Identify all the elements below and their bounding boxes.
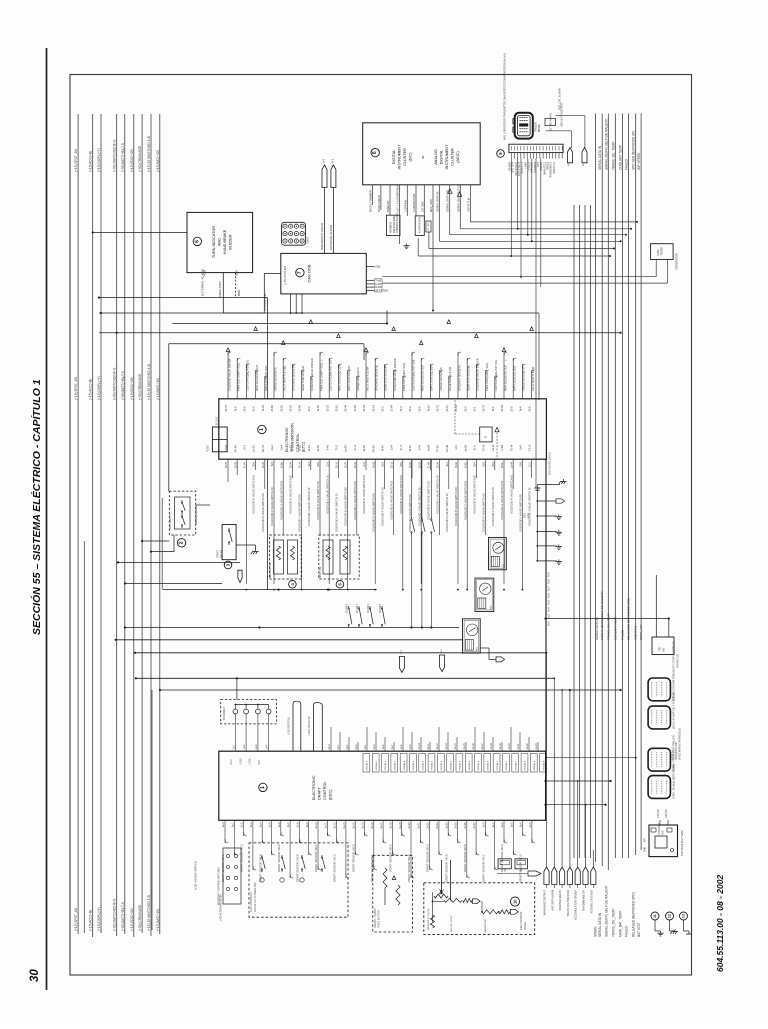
svg-text:NEUTRAL SW: NEUTRAL SW <box>269 562 272 578</box>
svg-text:W-1D: W-1D <box>299 445 302 452</box>
etc to edc right edge wire <box>545 459 547 751</box>
svg-text:SOLENOID L VALVE SWITCH DI: SOLENOID L VALVE SWITCH DI <box>325 475 329 514</box>
svg-text:DI-SW 2: DI-SW 2 <box>368 603 370 612</box>
svg-text:25-6: 25-6 <box>492 461 495 466</box>
svg-text:Ta-4: Ta-4 <box>548 607 551 612</box>
svg-text:ELECTRONIC: ELECTRONIC <box>285 427 289 452</box>
svg-text:23-64: 23-64 <box>299 404 302 411</box>
bus wire y333 <box>99 332 621 334</box>
bus wire y653 <box>135 652 547 654</box>
svg-text:SERIAL DATA IN/1: SERIAL DATA IN/1 <box>446 189 450 212</box>
svg-text:25-5: 25-5 <box>483 461 486 466</box>
svg-text:(+15) HI B-IN: (+15) HI B-IN <box>263 293 267 310</box>
bus wire y627 <box>125 627 459 629</box>
svg-text:DI-SW 0: DI-SW 0 <box>347 603 349 612</box>
svg-text:25-34: 25-34 <box>437 461 440 468</box>
ground reference G13 <box>680 912 688 920</box>
svg-text:25-75: 25-75 <box>345 461 348 468</box>
cluster bottom pins <box>372 185 374 205</box>
svg-text:4a-10: 4a-10 <box>418 743 421 750</box>
K9 output arrow <box>480 647 489 649</box>
svg-text:R15: R15 <box>523 513 527 518</box>
svg-text:(+15) BAT(+15): (+15) BAT(+15) <box>156 150 160 172</box>
svg-text:SOLENOID F VALVE SWITCH DI: SOLENOID F VALVE SWITCH DI <box>491 487 495 526</box>
svg-text:25-61: 25-61 <box>501 461 504 468</box>
svg-text:AL-5: AL-5 <box>474 444 477 450</box>
svg-text:SOLENOID B VALVE SWITCH DI: SOLENOID B VALVE SWITCH DI <box>454 487 458 526</box>
can ddb right pins <box>366 266 374 268</box>
wire drop x267 <box>266 298 268 399</box>
svg-text:AMP STAT: AMP STAT <box>634 625 638 640</box>
svg-text:ANT-SKP ALARM: ANT-SKP ALARM <box>550 890 554 911</box>
svg-text:SPEED SENSOR IN: SPEED SENSOR IN <box>522 367 526 391</box>
svg-text:Ta-14: Ta-14 <box>299 461 302 468</box>
edc control panel <box>424 883 535 935</box>
panel pot P2 <box>444 898 462 902</box>
svg-text:SOLENOID L VALVE SWITCH DI: SOLENOID L VALVE SWITCH DI <box>436 475 440 514</box>
svg-text:2a-17: 2a-17 <box>380 822 383 829</box>
svg-text:1a-M: 1a-M <box>492 445 495 451</box>
bus wire y344 <box>169 343 364 345</box>
panel pot feeds <box>441 860 443 893</box>
svg-text:13: 13 <box>682 914 686 918</box>
svg-text:T-1-B: T-1-B <box>529 445 532 451</box>
svg-text:NR: NR <box>661 648 665 652</box>
svg-text:(+30) CREAKAGE: (+30) CREAKAGE <box>138 905 142 931</box>
svg-text:(EDC): (EDC) <box>329 789 333 800</box>
wire branch x84 <box>83 541 85 933</box>
svg-text:(+15) EDC(+15): (+15) EDC(+15) <box>130 149 134 172</box>
svg-text:SOLENOID G VALVE SWITCH DI: SOLENOID G VALVE SWITCH DI <box>500 481 504 520</box>
svg-text:GEAR POS SENSOR: GEAR POS SENSOR <box>384 366 388 391</box>
svg-text:EDC CONTROLS: EDC CONTROLS <box>250 892 253 912</box>
svg-text:25-34: 25-34 <box>363 404 366 411</box>
svg-text:SIGNAL 5: SIGNAL 5 <box>431 760 434 771</box>
svg-text:SLIP SET POINT: SLIP SET POINT <box>451 915 453 932</box>
bus wire y640 <box>116 639 463 641</box>
svg-text:AND LUBRICATION TRANSMITTER DI: AND LUBRICATION TRANSMITTER DIAGNOSTICS … <box>504 53 507 140</box>
svg-text:BAT: BAT <box>644 837 647 842</box>
svg-text:AL-4: AL-4 <box>400 444 403 450</box>
svg-text:25-14: 25-14 <box>372 404 375 411</box>
relay module K9 <box>463 619 481 653</box>
svg-text:2a-25: 2a-25 <box>455 822 458 829</box>
wires start relay <box>125 583 222 585</box>
svg-text:(+30) CREAKAGE: (+30) CREAKAGE <box>138 146 142 172</box>
bus wire y323 <box>172 323 387 325</box>
svg-text:CONN/DIS SIGNAL: CONN/DIS SIGNAL <box>396 212 399 233</box>
svg-text:4a-20: 4a-20 <box>508 743 511 750</box>
svg-text:HI-LO SHUTTLE SW: HI-LO SHUTTLE SW <box>448 366 452 391</box>
svg-text:2a-14: 2a-14 <box>352 822 355 829</box>
pentagon not used 1 <box>568 148 573 163</box>
svg-text:DI-SW 1: DI-SW 1 <box>357 603 359 612</box>
connector X12 pin grid <box>282 222 306 245</box>
svg-text:25-6: 25-6 <box>317 461 320 466</box>
svg-text:2a-2: 2a-2 <box>501 822 504 827</box>
svg-text:TRANS_OIL_TEMP: TRANS_OIL_TEMP <box>611 909 615 937</box>
svg-text:EXTERNAL ALARM: EXTERNAL ALARM <box>201 269 205 296</box>
svg-text:FAILED: FAILED <box>624 158 628 170</box>
svg-text:25-34: 25-34 <box>455 404 458 411</box>
connector DT9 housing icon <box>515 113 533 139</box>
svg-text:HI-LO SHUTTLE SW: HI-LO SHUTTLE SW <box>531 366 535 391</box>
svg-text:LOAD OVERFLW: LOAD OVERFLW <box>308 716 311 736</box>
svg-text:25-8: 25-8 <box>520 461 523 466</box>
svg-text:DRAFT SENSOR SIG 6: DRAFT SENSOR SIG 6 <box>444 854 448 882</box>
svg-text:4a-4: 4a-4 <box>364 744 367 749</box>
svg-text:DRAFT SENSOR SIG 1: DRAFT SENSOR SIG 1 <box>314 844 318 872</box>
svg-text:RELAY: RELAY <box>220 550 223 558</box>
svg-text:IMP SPEED: IMP SPEED <box>637 152 641 170</box>
svg-text:1a-4S: 1a-4S <box>363 445 366 452</box>
svg-text:TRANS OIL PRESS DI: TRANS OIL PRESS DI <box>566 890 570 917</box>
connector block P2 <box>648 706 670 729</box>
svg-text:(+15) SPST_AN: (+15) SPST_AN <box>74 907 78 931</box>
svg-text:TP-2: TP-2 <box>336 444 339 450</box>
svg-text:2a-18: 2a-18 <box>390 822 393 829</box>
svg-text:SEAT SWITCH: SEAT SWITCH <box>169 514 172 530</box>
svg-text:SIGNAL 3: SIGNAL 3 <box>394 760 397 771</box>
svg-text:SECCIÓN 55 – SISTEMA ELÉCTRICO: SECCIÓN 55 – SISTEMA ELÉCTRICO - CAPÍTUL… <box>30 379 43 635</box>
svg-text:ANALOG: ANALOG <box>434 149 438 165</box>
svg-text:2a-0: 2a-0 <box>483 822 486 827</box>
svg-text:CN2: CN2 <box>375 265 381 269</box>
svg-text:DRAFT SENSOR SIG 3: DRAFT SENSOR SIG 3 <box>333 854 337 882</box>
svg-text:2a-13: 2a-13 <box>343 822 346 829</box>
svg-text:(+30) BATT(+B)LT-S: (+30) BATT(+B)LT-S <box>121 371 125 400</box>
svg-text:SPD SEN (BUFFERED SP): SPD SEN (BUFFERED SP) <box>632 131 636 170</box>
svg-text:1a-2: 1a-2 <box>243 744 246 749</box>
svg-text:SIGNAL 3: SIGNAL 3 <box>366 760 369 771</box>
svg-text:4a-0: 4a-0 <box>328 744 331 749</box>
relay module K8 <box>475 578 494 611</box>
svg-text:LO-P: LO-P <box>230 759 233 765</box>
svg-text:12: 12 <box>668 914 672 918</box>
position sensor module <box>373 855 413 932</box>
svg-text:INSTRUMENT: INSTRUMENT <box>445 144 449 170</box>
svg-text:2a-20: 2a-20 <box>408 822 411 829</box>
svg-text:L-EXU: L-EXU <box>239 758 242 765</box>
svg-text:25-62: 25-62 <box>271 404 274 411</box>
svg-text:(+15) EDC(+15): (+15) EDC(+15) <box>130 377 134 400</box>
svg-text:HAND BRAKE: HAND BRAKE <box>223 229 227 254</box>
cluster to etc verticals <box>535 159 537 489</box>
block electronic draft control U1b <box>219 751 546 820</box>
svg-text:EDC CONTROL: EDC CONTROL <box>519 911 523 930</box>
svg-text:Ta-3: Ta-3 <box>308 461 311 466</box>
svg-text:SOLENOID H VALVE SWITCH DI: SOLENOID H VALVE SWITCH DI <box>399 475 403 514</box>
svg-text:23-61: 23-61 <box>464 461 467 468</box>
svg-text:(+30) SWITCHED B+S: (+30) SWITCHED B+S <box>113 140 117 172</box>
neutral switch module M4 <box>270 535 302 579</box>
svg-text:(+15) SPST_AN: (+15) SPST_AN <box>74 376 78 400</box>
pentagons below relays <box>399 656 404 672</box>
svg-text:2a-5: 2a-5 <box>529 822 532 827</box>
svg-text:SIGNAL 3: SIGNAL 3 <box>384 760 387 771</box>
svg-text:Ta-7: Ta-7 <box>548 586 551 591</box>
svg-text:25-75: 25-75 <box>225 404 228 411</box>
svg-text:SOLENOID VALVE DRIVER: SOLENOID VALVE DRIVER <box>227 358 231 391</box>
start relay pentagon <box>238 570 242 582</box>
svg-text:AND: AND <box>218 238 222 246</box>
svg-text:CLUTCH PEDAL POT SIG: CLUTCH PEDAL POT SIG <box>494 360 498 391</box>
dashed module above edc <box>221 700 277 724</box>
svg-text:4a-2: 4a-2 <box>346 744 349 749</box>
svg-text:JP-1: JP-1 <box>244 444 247 450</box>
svg-text:TRANS_OIL_TEMP: TRANS_OIL_TEMP <box>606 613 610 640</box>
svg-text:HI-LO SHUTTLE SW: HI-LO SHUTTLE SW <box>283 366 287 391</box>
clutch switch module M5 <box>319 535 359 579</box>
svg-text:1a-64: 1a-64 <box>428 444 431 451</box>
svg-text:V-4S: V-4S <box>326 445 329 451</box>
power ground chain <box>536 485 538 561</box>
svg-text:2a-22: 2a-22 <box>427 822 430 829</box>
svg-text:SIGNAL 8: SIGNAL 8 <box>524 760 527 771</box>
svg-text:Ta-5: Ta-5 <box>548 600 551 605</box>
svg-text:(ADIC): (ADIC) <box>456 150 460 162</box>
svg-text:SIGNAL 4: SIGNAL 4 <box>421 760 424 771</box>
svg-text:L-SOL: L-SOL <box>249 757 252 765</box>
svg-text:SOLENOID F VALVE SWITCH DI: SOLENOID F VALVE SWITCH DI <box>270 487 274 526</box>
svg-text:PWM OUT (SHIFT SOL): PWM OUT (SHIFT SOL) <box>485 363 489 391</box>
left harness bundle wires <box>77 114 79 934</box>
svg-text:MHz GUARD CABLE: MHz GUARD CABLE <box>549 452 552 475</box>
svg-text:SOLENOID I VALVE SWITCH DI: SOLENOID I VALVE SWITCH DI <box>519 494 523 532</box>
svg-text:DRAFT SENSOR SIG 3: DRAFT SENSOR SIG 3 <box>500 844 504 872</box>
svg-text:25-34: 25-34 <box>290 461 293 468</box>
svg-text:CN-6: CN-6 <box>225 444 228 450</box>
svg-text:4WD SOLENOID OUT: 4WD SOLENOID OUT <box>338 364 342 391</box>
svg-text:AR-4S: AR-4S <box>372 445 375 453</box>
wire drop into gnd module <box>236 678 238 699</box>
svg-text:2a-23: 2a-23 <box>436 822 439 829</box>
svg-text:GND: GND <box>645 847 647 852</box>
svg-text:SOLENOID D VALVE SWITCH DI: SOLENOID D VALVE SWITCH DI <box>473 475 477 514</box>
wire drop x267 lower <box>266 459 268 589</box>
svg-text:PWM OUT (SHIFT SOL): PWM OUT (SHIFT SOL) <box>402 363 406 391</box>
svg-text:(+15) 15 SWITCHED 1-B: (+15) 15 SWITCHED 1-B <box>147 136 151 172</box>
right bottom junction wires <box>546 780 611 782</box>
svg-text:SIGNAL 6: SIGNAL 6 <box>459 760 462 771</box>
svg-text:T-4M: T-4M <box>501 445 504 451</box>
svg-text:Ta-3: Ta-3 <box>492 406 495 411</box>
svg-text:SIGNAL 4: SIGNAL 4 <box>412 760 415 771</box>
svg-text:2a-26: 2a-26 <box>464 822 467 829</box>
svg-text:23-44: 23-44 <box>510 461 513 468</box>
svg-text:SPEED SENSOR IN: SPEED SENSOR IN <box>439 367 443 391</box>
svg-text:25-75: 25-75 <box>437 404 440 411</box>
wire buzzer hom to can ddb <box>222 273 224 313</box>
svg-text:(+15) DISPL(+Y): (+15) DISPL(+Y) <box>97 148 101 172</box>
svg-text:A-1: A-1 <box>440 649 443 653</box>
svg-text:BACKLT DIMMER: BACKLT DIMMER <box>369 190 373 212</box>
strip pin drops <box>510 159 512 257</box>
panel pot P1 <box>434 894 448 898</box>
etc bottom pins <box>227 459 229 482</box>
svg-text:21-0: 21-0 <box>308 406 311 412</box>
svg-text:DRAFT: DRAFT <box>318 787 322 800</box>
svg-text:SERIAL DATA IN: SERIAL DATA IN <box>436 192 440 212</box>
svg-text:2a-0: 2a-0 <box>222 822 225 827</box>
svg-text:Ta-6: Ta-6 <box>548 593 551 598</box>
wire buzzer brk dashed <box>235 273 237 298</box>
svg-text:SOLENOID D VALVE SWITCH DI: SOLENOID D VALVE SWITCH DI <box>252 475 256 514</box>
svg-text:1a-1D: 1a-1D <box>253 445 256 452</box>
svg-text:2a-2: 2a-2 <box>241 822 244 827</box>
left small module <box>223 848 241 904</box>
svg-text:4a-14: 4a-14 <box>454 743 457 750</box>
svg-text:SERIAL DATA IN: SERIAL DATA IN <box>598 912 602 937</box>
svg-text:HANDBRAKE ON: HANDBRAKE ON <box>582 890 586 911</box>
panel feed pentagon <box>528 871 541 876</box>
svg-text:21-64: 21-64 <box>244 461 247 468</box>
svg-text:SIGNAL 7: SIGNAL 7 <box>496 760 499 771</box>
svg-text:DIAGNOSTIC (AG10): DIAGNOSTIC (AG10) <box>320 223 324 250</box>
svg-text:DRAFT SENSOR SIG 6: DRAFT SENSOR SIG 6 <box>277 844 281 872</box>
svg-text:2a-21: 2a-21 <box>417 822 420 829</box>
svg-text:2a-10: 2a-10 <box>315 822 318 829</box>
svg-text:(+15) SPST_AN: (+15) SPST_AN <box>74 148 78 172</box>
svg-text:21-64: 21-64 <box>354 404 357 411</box>
svg-text:SOLENOID G VALVE SWITCH DI: SOLENOID G VALVE SWITCH DI <box>279 481 283 520</box>
svg-text:21-64: 21-64 <box>391 404 394 411</box>
svg-text:SOLENOID J VALVE SWITCH DI: SOLENOID J VALVE SWITCH DI <box>528 487 532 526</box>
svg-text:7: 7 <box>297 271 303 274</box>
svg-text:GNL: GNL <box>526 512 530 518</box>
svg-text:25-4: 25-4 <box>400 406 403 412</box>
svg-text:TOP VIEW (KEY SWB): TOP VIEW (KEY SWB) <box>681 830 684 856</box>
svg-text:SOLENOID E VALVE SWITCH DI: SOLENOID E VALVE SWITCH DI <box>371 493 375 532</box>
svg-text:SOLENOID K VALVE SWITCH DI: SOLENOID K VALVE SWITCH DI <box>427 481 431 520</box>
svg-text:SPARE: SPARE <box>594 926 598 937</box>
svg-text:TS-M: TS-M <box>510 445 513 451</box>
alarm elbow wires <box>570 131 572 148</box>
svg-text:DIFF LOCK SOL OUT: DIFF LOCK SOL OUT <box>513 365 517 391</box>
svg-text:2a-8: 2a-8 <box>297 822 300 827</box>
svg-text:ALT. L FLASHEROVAL: ALT. L FLASHEROVAL <box>396 184 400 212</box>
svg-text:DRAFT SENSOR SIG 2: DRAFT SENSOR SIG 2 <box>407 854 411 882</box>
svg-text:25-34: 25-34 <box>354 461 357 468</box>
svg-text:1a-3: 1a-3 <box>255 744 258 749</box>
svg-text:23-64: 23-64 <box>280 461 283 468</box>
svg-text:1: 1 <box>259 428 265 431</box>
svg-text:4a-15: 4a-15 <box>463 743 466 750</box>
svg-text:MAIN_BAT_TEMP: MAIN_BAT_TEMP <box>619 911 623 937</box>
svg-text:+VE ALTERNATOR W+: +VE ALTERNATOR W+ <box>219 893 223 921</box>
svg-text:21-1: 21-1 <box>529 461 532 466</box>
block turn indicator and hand brake buzzer U6 <box>187 212 253 272</box>
svg-text:CLUTCH PEDAL POT SIG: CLUTCH PEDAL POT SIG <box>411 360 415 391</box>
svg-text:BRAKE: BRAKE <box>538 124 541 132</box>
svg-text:RELEASED (BUFFERED SPD): RELEASED (BUFFERED SPD) <box>632 892 636 937</box>
svg-text:AR-48: AR-48 <box>446 444 449 452</box>
svg-text:CLUSTER: CLUSTER <box>451 148 455 166</box>
bus wire y298 <box>99 297 267 299</box>
svg-text:SOLENOID VALVE DRIVER: SOLENOID VALVE DRIVER <box>310 358 314 391</box>
svg-text:25-75: 25-75 <box>262 461 265 468</box>
svg-text:2a-9: 2a-9 <box>306 822 309 827</box>
svg-text:SOLENOID G VALVE SWITCH DI: SOLENOID G VALVE SWITCH DI <box>390 481 394 520</box>
svg-text:25-5: 25-5 <box>382 406 385 412</box>
svg-text:SPEED SENSOR IN: SPEED SENSOR IN <box>273 367 277 391</box>
svg-text:Ta-54: Ta-54 <box>262 405 265 412</box>
svg-text:RAISE/WORK: RAISE/WORK <box>484 918 487 933</box>
svg-text:DIGITAL: DIGITAL <box>440 150 444 165</box>
svg-text:CLUTCH PEDAL POT SIG: CLUTCH PEDAL POT SIG <box>329 360 333 391</box>
svg-text:DIS: DIS <box>661 830 664 834</box>
svg-text:25-6: 25-6 <box>244 406 247 412</box>
block electronic transmission control U1 <box>219 399 547 459</box>
svg-text:SOLENOID E VALVE SWITCH DI: SOLENOID E VALVE SWITCH DI <box>482 493 486 532</box>
module harness conn box <box>386 215 400 235</box>
svg-text:SOLENOID K VALVE SWITCH DI: SOLENOID K VALVE SWITCH DI <box>316 481 320 520</box>
svg-text:1: 1 <box>260 786 266 789</box>
svg-text:1a-4D: 1a-4D <box>345 445 348 452</box>
svg-text:SIGNAL (BUFF) SELF DE RALENTI: SIGNAL (BUFF) SELF DE RALENTI <box>604 885 608 937</box>
svg-text:23-44: 23-44 <box>345 404 348 411</box>
gnd pentagon <box>537 500 556 502</box>
drop switches <box>411 459 413 517</box>
svg-text:(DIC): (DIC) <box>409 152 413 162</box>
wire y562 <box>118 561 240 563</box>
capacitor C1 <box>534 487 540 489</box>
svg-text:2a-5: 2a-5 <box>269 822 272 827</box>
svg-text:4a-1: 4a-1 <box>337 744 340 749</box>
svg-text:2a-1: 2a-1 <box>492 822 495 827</box>
svg-text:4WD SOLENOID OUT: 4WD SOLENOID OUT <box>421 364 425 391</box>
left bundle lower connections <box>151 690 153 930</box>
etc left connector <box>212 427 227 452</box>
relay pair above panel <box>498 859 511 869</box>
svg-text:25-15: 25-15 <box>391 461 394 468</box>
svg-text:(+30) BATT(+B)LT-S: (+30) BATT(+B)LT-S <box>121 902 125 931</box>
pentagon not used 2 <box>582 148 587 163</box>
svg-text:W-4S: W-4S <box>409 445 412 452</box>
svg-text:J OPERN: J OPERN <box>403 200 407 212</box>
bus wire y590 <box>163 589 377 591</box>
svg-text:(+30) CREAKAGE: (+30) CREAKAGE <box>138 374 142 400</box>
svg-text:MFA_SPD: MFA_SPD <box>429 199 433 212</box>
svg-text:4a-3: 4a-3 <box>355 744 358 749</box>
svg-text:DRAFT SENSOR SIG 8: DRAFT SENSOR SIG 8 <box>463 844 467 872</box>
svg-text:DRAFT SENSOR SIG 5: DRAFT SENSOR SIG 5 <box>351 844 355 872</box>
svg-text:HI-P: HI-P <box>258 760 261 765</box>
svg-text:(+15) BAT(+15): (+15) BAT(+15) <box>156 378 160 400</box>
svg-text:SPARES (D): SPARES (D) <box>677 654 680 668</box>
svg-text:4a-17: 4a-17 <box>481 743 484 750</box>
right harness bundle wires <box>573 205 575 858</box>
svg-text:SIGNAL 8: SIGNAL 8 <box>533 760 536 771</box>
svg-text:J2T JMC: J2T JMC <box>420 201 424 212</box>
svg-text:TERM: TERM <box>660 247 664 256</box>
svg-text:2a-24: 2a-24 <box>445 822 448 829</box>
svg-text:POS/DRAFT: POS/DRAFT <box>223 706 226 720</box>
svg-text:SIGNAL 7: SIGNAL 7 <box>505 760 508 771</box>
svg-text:DI-SW 3: DI-SW 3 <box>380 603 382 612</box>
block instrument cluster U8 <box>363 123 481 185</box>
connector pentagon J1 <box>322 165 327 188</box>
svg-text:COOLANT TEMP: COOLANT TEMP <box>619 145 623 170</box>
svg-text:(+30) SWITCHED B+S: (+30) SWITCHED B+S <box>113 899 117 931</box>
svg-text:4a-22: 4a-22 <box>526 743 529 750</box>
svg-text:DIFF LOCK SOL OUT: DIFF LOCK SOL OUT <box>430 365 434 391</box>
svg-text:MODULE (TO ANA TOR) (BUFF) CTO: MODULE (TO ANA TOR) (BUFF) CTOR A (BATT)… <box>673 641 676 701</box>
svg-text:SOLENOID C VALVE SWITCH DI: SOLENOID C VALVE SWITCH DI <box>463 481 467 520</box>
svg-text:V-4T: V-4T <box>418 445 421 451</box>
svg-text:FAILED: FAILED <box>621 629 625 640</box>
svg-text:Ta-53: Ta-53 <box>372 461 375 468</box>
